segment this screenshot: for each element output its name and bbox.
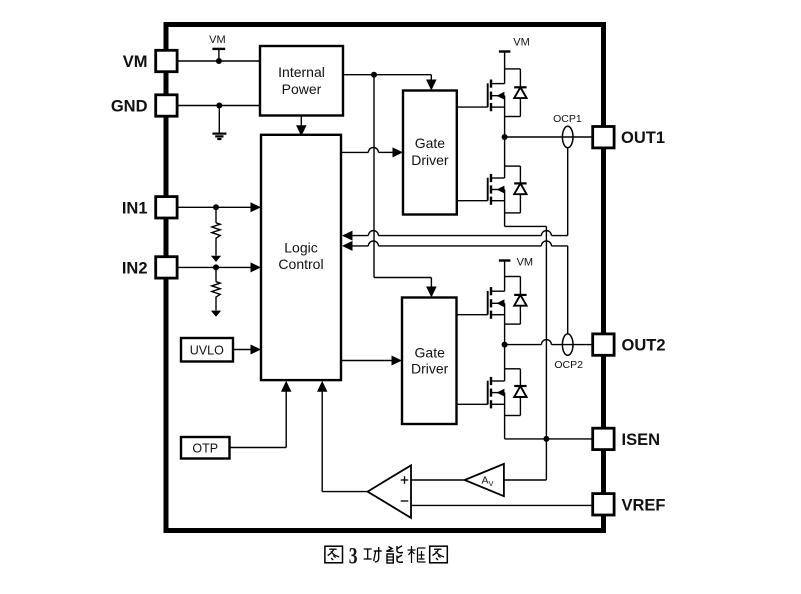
svg-text:UVLO: UVLO xyxy=(190,344,224,358)
node GND wire junction xyxy=(216,103,222,109)
wire bridge1 midpoint xyxy=(504,117,506,167)
wire GND pin to Internal Power xyxy=(177,105,260,107)
svg-text:VM: VM xyxy=(123,53,148,71)
ground symbol xyxy=(212,106,226,140)
label GND pin xyxy=(111,98,148,116)
pin IN1 xyxy=(156,197,177,218)
wire VM pin to Internal Power xyxy=(177,60,260,62)
node IN1 junction xyxy=(213,204,219,210)
label OUT2 pin xyxy=(622,337,666,355)
amplifier A_v U7 xyxy=(465,464,504,496)
svg-text:OUT2: OUT2 xyxy=(622,337,666,355)
svg-text:Control: Control xyxy=(278,256,323,272)
wire Internal Power output to Gate Driver 1 xyxy=(343,75,437,91)
svg-text:OCP1: OCP1 xyxy=(553,113,582,125)
svg-text:OTP: OTP xyxy=(192,442,218,456)
comparator U8 xyxy=(368,465,411,518)
wire OCP2 feedback to Logic Control xyxy=(342,241,568,251)
wire bridge2 midpoint xyxy=(504,324,506,369)
pin VREF xyxy=(593,494,614,515)
svg-text:IN1: IN1 xyxy=(122,199,148,217)
label VM pin xyxy=(123,53,148,71)
block OTP U6 xyxy=(181,437,230,459)
node bridge2 output junction xyxy=(502,342,508,348)
wire IN1 pin to Logic Control xyxy=(177,202,261,212)
svg-text:OUT1: OUT1 xyxy=(621,129,665,147)
label VREF pin xyxy=(622,496,666,514)
svg-text:IN2: IN2 xyxy=(122,259,148,277)
pin ISEN xyxy=(593,428,614,449)
svg-text:3: 3 xyxy=(349,544,358,570)
resistor R1 on IN1 xyxy=(211,207,221,262)
svg-text:Driver: Driver xyxy=(411,152,449,168)
wire Q2 source to ISEN rail xyxy=(505,213,547,439)
svg-text:Driver: Driver xyxy=(411,361,449,377)
svg-text:Power: Power xyxy=(282,81,322,97)
power supply VM symbol (top-left) xyxy=(209,34,226,61)
wire UVLO to Logic Control xyxy=(233,345,261,355)
current sensor OCP2 xyxy=(554,334,583,371)
wire IN2 pin to Logic Control xyxy=(177,262,261,272)
block UVLO U5 xyxy=(181,338,233,362)
IC boundary box xyxy=(166,25,604,531)
block Gate Driver U4 xyxy=(402,298,457,425)
wire Q4 source down to ISEN line xyxy=(504,416,506,439)
node ISEN junction xyxy=(543,436,549,442)
wire OCP1 sense down xyxy=(567,148,569,236)
transistor Q4 low-side NMOS (bridge 2) xyxy=(457,369,527,416)
wire OCP1 feedback to Logic Control xyxy=(342,231,568,241)
label OUT1 pin xyxy=(621,129,665,147)
label IN2 pin xyxy=(122,259,148,277)
label IN1 pin xyxy=(122,199,148,217)
svg-text:Gate: Gate xyxy=(415,344,446,360)
pin GND xyxy=(156,95,177,116)
svg-text:VM: VM xyxy=(513,36,530,48)
transistor Q2 low-side NMOS (bridge 1) xyxy=(457,166,527,213)
wire bridge2 output to OUT2 pin xyxy=(505,340,593,345)
wire ISEN to Av amplifier xyxy=(504,439,547,480)
pin OUT2 xyxy=(593,334,614,355)
wire OTP to Logic Control xyxy=(230,381,292,448)
node IN2 junction xyxy=(213,264,219,270)
wire Internal Power to Logic Control xyxy=(296,116,307,137)
pin VM xyxy=(156,50,177,71)
svg-text:Gate: Gate xyxy=(415,135,446,151)
svg-text:GND: GND xyxy=(111,98,148,116)
svg-text:Logic: Logic xyxy=(284,239,317,255)
wire OCP2 sense down xyxy=(567,246,569,334)
label ISEN pin xyxy=(622,431,661,449)
current sensor OCP1 xyxy=(553,113,582,148)
wire supply rail down to Gate Driver 2 xyxy=(374,75,437,298)
svg-text:ISEN: ISEN xyxy=(622,431,661,449)
power supply VM symbol (bridge 1) xyxy=(499,36,530,69)
node supply rail junction xyxy=(371,72,377,78)
caption glyph 能 xyxy=(386,546,403,563)
wire ISEN rail xyxy=(505,438,593,440)
block Gate Driver U3 xyxy=(403,91,457,215)
wire comparator output to Logic Control xyxy=(317,381,368,492)
caption figure number 3 xyxy=(349,544,358,570)
caption glyph 框 xyxy=(408,546,426,563)
transistor Q1 high-side NMOS (bridge 1) xyxy=(457,69,527,117)
svg-text:VREF: VREF xyxy=(622,496,666,514)
svg-text:VM: VM xyxy=(209,34,226,46)
node bridge1 output junction xyxy=(502,134,508,140)
caption glyph 功 xyxy=(364,547,382,562)
svg-text:OCP2: OCP2 xyxy=(554,359,583,371)
pin IN2 xyxy=(156,257,177,278)
wire Av output to comparator + xyxy=(411,479,465,481)
wire VREF pin to comparator - xyxy=(411,504,593,506)
pin OUT1 xyxy=(593,127,614,148)
svg-text:Internal: Internal xyxy=(278,64,325,80)
block Internal Power U1 xyxy=(260,46,343,116)
caption glyph 图 xyxy=(430,546,448,563)
node VM wire junction xyxy=(216,58,222,64)
wire Logic Control to Gate Driver 2 xyxy=(341,356,402,366)
transistor Q3 high-side NMOS (bridge 2) xyxy=(457,277,527,325)
resistor R2 on IN2 xyxy=(211,267,221,316)
power supply VM symbol (bridge 2) xyxy=(499,256,533,276)
svg-text:VM: VM xyxy=(517,256,534,268)
wire bridge1 output to OUT1 pin xyxy=(505,136,593,138)
block Logic Control U2 xyxy=(261,135,341,380)
caption figure 3 glyph 图 xyxy=(325,546,343,563)
wire Logic Control to Gate Driver 1 xyxy=(341,147,403,157)
